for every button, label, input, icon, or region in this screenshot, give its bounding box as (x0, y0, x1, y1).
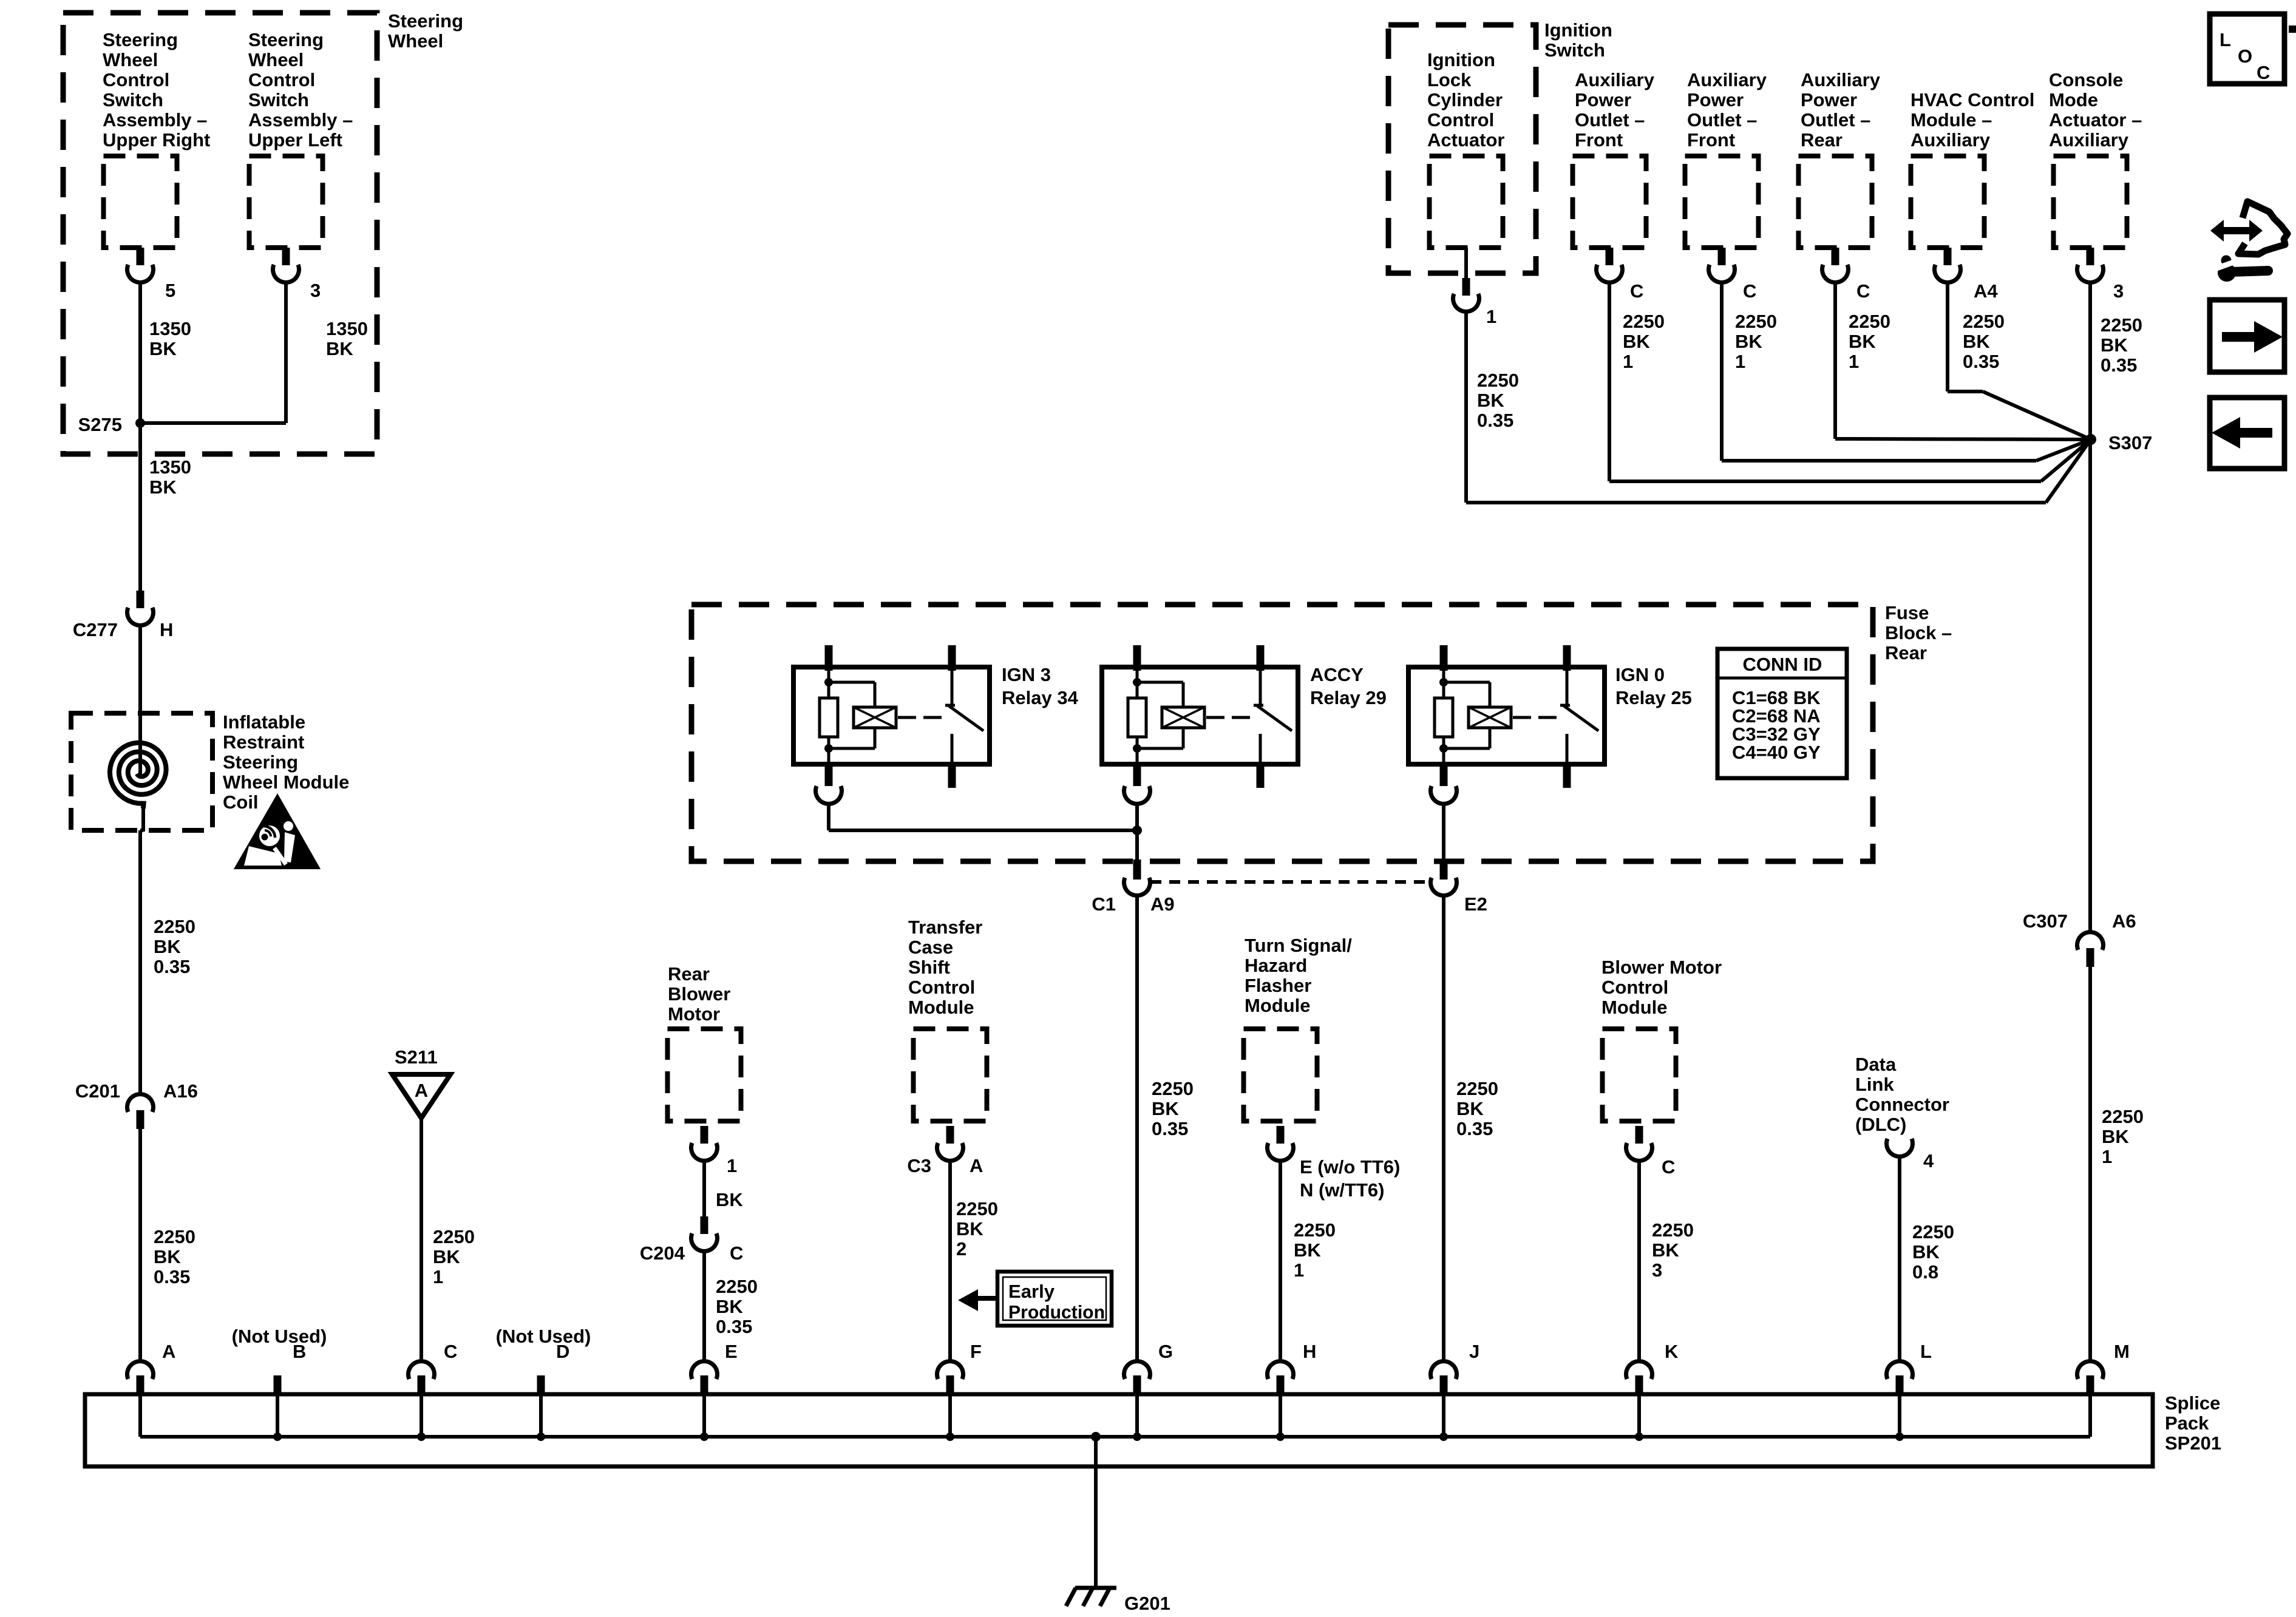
svg-text:Data: Data (1855, 1054, 1897, 1075)
svg-text:L: L (2220, 29, 2231, 50)
svg-text:BK: BK (1456, 1098, 1484, 1119)
svg-text:2250: 2250 (1912, 1221, 1954, 1242)
svg-text:A4: A4 (1974, 280, 1998, 302)
svg-text:(DLC): (DLC) (1855, 1114, 1906, 1135)
svg-text:S307: S307 (2108, 432, 2152, 453)
svg-text:Outlet –: Outlet – (1575, 109, 1645, 131)
svg-text:E (w/o TT6): E (w/o TT6) (1300, 1156, 1400, 1178)
svg-text:G201: G201 (1124, 1593, 1170, 1614)
svg-text:C307: C307 (2023, 910, 2068, 932)
svg-text:1: 1 (1849, 351, 1859, 372)
svg-text:Switch: Switch (248, 89, 309, 110)
svg-text:Mode: Mode (2049, 89, 2098, 110)
svg-text:Auxiliary: Auxiliary (2049, 129, 2129, 151)
svg-text:Assembly –: Assembly – (248, 109, 353, 131)
svg-text:Steering: Steering (248, 29, 324, 50)
svg-text:B: B (293, 1341, 306, 1362)
svg-text:Steering: Steering (223, 751, 298, 773)
svg-text:2250: 2250 (1652, 1219, 1694, 1241)
svg-text:2250: 2250 (1849, 311, 1890, 332)
svg-text:0.35: 0.35 (154, 956, 190, 977)
svg-text:5: 5 (165, 280, 175, 301)
svg-text:Assembly –: Assembly – (103, 109, 207, 131)
svg-text:ACCY: ACCY (1310, 664, 1364, 685)
svg-text:2250: 2250 (1623, 311, 1665, 332)
svg-text:Connector: Connector (1855, 1094, 1949, 1115)
svg-text:C: C (1856, 280, 1870, 302)
svg-text:Pack: Pack (2165, 1412, 2209, 1434)
svg-text:Outlet –: Outlet – (1687, 109, 1757, 131)
svg-text:1: 1 (727, 1155, 737, 1176)
svg-text:2250: 2250 (956, 1198, 998, 1219)
svg-text:A: A (415, 1080, 428, 1101)
svg-text:BK: BK (956, 1218, 983, 1239)
svg-text:Power: Power (1575, 89, 1631, 110)
svg-text:Steering: Steering (103, 29, 178, 50)
svg-text:Upper Right: Upper Right (103, 129, 210, 151)
svg-text:1350: 1350 (149, 456, 191, 478)
svg-text:Actuator: Actuator (1427, 129, 1504, 151)
svg-text:O: O (2238, 46, 2252, 67)
svg-text:Module –: Module – (1911, 109, 1992, 131)
svg-text:Motor: Motor (668, 1003, 720, 1025)
svg-text:C201: C201 (75, 1080, 120, 1102)
svg-text:Actuator –: Actuator – (2049, 109, 2142, 131)
svg-text:0.35: 0.35 (1963, 351, 1999, 372)
svg-text:Module: Module (1245, 995, 1311, 1016)
svg-text:2250: 2250 (433, 1226, 475, 1247)
svg-text:A: A (970, 1155, 983, 1176)
svg-text:Upper Left: Upper Left (248, 129, 342, 151)
svg-text:Control: Control (248, 69, 315, 90)
svg-text:2250: 2250 (2102, 1106, 2144, 1127)
svg-text:2250: 2250 (1963, 311, 2005, 332)
svg-text:Turn Signal/: Turn Signal/ (1245, 935, 1352, 956)
svg-text:Wheel Module: Wheel Module (223, 771, 349, 793)
svg-text:Switch: Switch (103, 89, 163, 110)
svg-text:A6: A6 (2112, 910, 2136, 932)
svg-text:0.35: 0.35 (1456, 1118, 1493, 1139)
svg-text:2250: 2250 (1152, 1078, 1194, 1099)
svg-text:2: 2 (956, 1238, 966, 1259)
svg-text:Module: Module (908, 997, 974, 1018)
svg-text:BK: BK (326, 338, 353, 359)
svg-text:L: L (1920, 1341, 1932, 1362)
svg-text:BK: BK (1623, 331, 1650, 352)
svg-text:2250: 2250 (1294, 1219, 1336, 1241)
svg-text:1: 1 (1486, 306, 1496, 327)
svg-text:2250: 2250 (1456, 1078, 1498, 1099)
svg-text:D: D (556, 1341, 569, 1362)
svg-text:BK: BK (1477, 390, 1504, 411)
svg-text:Ignition: Ignition (1427, 49, 1495, 70)
svg-text:Cylinder: Cylinder (1427, 89, 1503, 110)
svg-text:3: 3 (1652, 1259, 1662, 1281)
svg-text:1350: 1350 (149, 318, 191, 339)
svg-text:IGN 3: IGN 3 (1002, 664, 1051, 685)
svg-text:Wheel: Wheel (388, 30, 443, 52)
svg-text:Outlet –: Outlet – (1801, 109, 1870, 131)
svg-text:M: M (2114, 1341, 2130, 1362)
svg-text:C277: C277 (73, 619, 118, 640)
svg-text:C: C (730, 1242, 743, 1264)
svg-text:2250: 2250 (154, 1226, 195, 1247)
svg-text:Auxiliary: Auxiliary (1575, 69, 1655, 90)
svg-text:Power: Power (1801, 89, 1857, 110)
svg-text:1: 1 (1735, 351, 1745, 372)
svg-text:Early: Early (1008, 1281, 1055, 1302)
svg-text:C: C (2257, 62, 2270, 83)
svg-text:C3: C3 (907, 1155, 931, 1176)
svg-text:C: C (1630, 280, 1643, 302)
svg-text:CONN ID: CONN ID (1743, 654, 1822, 675)
svg-text:Control: Control (1601, 977, 1668, 998)
svg-text:BK: BK (2102, 1126, 2129, 1147)
svg-text:H: H (160, 619, 173, 640)
svg-text:Shift: Shift (908, 957, 950, 978)
svg-text:2250: 2250 (2101, 314, 2142, 336)
svg-text:Restraint: Restraint (223, 731, 304, 753)
svg-text:Console: Console (2049, 69, 2123, 90)
svg-text:BK: BK (154, 936, 181, 957)
svg-text:Relay 25: Relay 25 (1615, 687, 1692, 708)
svg-text:G: G (1158, 1341, 1173, 1362)
svg-text:BK: BK (1735, 331, 1762, 352)
svg-text:E2: E2 (1464, 893, 1487, 915)
svg-text:0.35: 0.35 (154, 1266, 190, 1287)
svg-text:Front: Front (1687, 129, 1735, 151)
svg-text:BK: BK (149, 338, 177, 359)
svg-text:Transfer: Transfer (908, 917, 982, 938)
svg-text:C: C (1743, 280, 1756, 302)
svg-text:F: F (970, 1341, 982, 1362)
svg-text:C: C (444, 1341, 457, 1362)
svg-text:BK: BK (149, 476, 177, 498)
svg-text:Hazard: Hazard (1245, 955, 1307, 976)
svg-text:Coil: Coil (223, 792, 259, 813)
svg-text:1: 1 (433, 1266, 443, 1287)
svg-text:Production: Production (1008, 1301, 1105, 1323)
svg-text:Module: Module (1601, 997, 1668, 1018)
svg-text:SP201: SP201 (2165, 1432, 2221, 1454)
svg-text:BK: BK (433, 1246, 460, 1267)
svg-text:K: K (1665, 1341, 1679, 1362)
svg-text:(Not Used): (Not Used) (232, 1326, 327, 1347)
svg-text:BK: BK (716, 1189, 743, 1210)
svg-text:J: J (1469, 1341, 1479, 1362)
svg-text:Ignition: Ignition (1544, 19, 1612, 41)
svg-text:Wheel: Wheel (248, 49, 304, 70)
svg-text:Splice: Splice (2165, 1392, 2220, 1414)
svg-text:HVAC Control: HVAC Control (1911, 89, 2034, 110)
svg-text:4: 4 (1923, 1150, 1934, 1171)
svg-text:BK: BK (1963, 331, 1990, 352)
svg-text:A16: A16 (163, 1080, 198, 1102)
svg-text:BK: BK (1294, 1239, 1321, 1261)
svg-text:Relay 34: Relay 34 (1002, 687, 1079, 708)
svg-text:BK: BK (1912, 1241, 1940, 1263)
svg-text:1: 1 (1623, 351, 1633, 372)
svg-text:Switch: Switch (1544, 39, 1605, 61)
svg-text:S211: S211 (395, 1046, 438, 1068)
svg-text:Power: Power (1687, 89, 1744, 110)
svg-text:0.35: 0.35 (716, 1316, 752, 1337)
svg-text:1350: 1350 (326, 318, 368, 339)
svg-text:BK: BK (2101, 334, 2128, 356)
svg-text:0.8: 0.8 (1912, 1261, 1938, 1283)
svg-text:IGN 0: IGN 0 (1615, 664, 1665, 685)
svg-text:3: 3 (2113, 280, 2124, 302)
svg-text:A: A (162, 1341, 175, 1362)
svg-text:Case: Case (908, 937, 953, 958)
svg-text:H: H (1303, 1341, 1316, 1362)
svg-text:BK: BK (1652, 1239, 1679, 1261)
svg-text:C204: C204 (640, 1242, 685, 1264)
svg-text:1: 1 (2102, 1146, 2112, 1167)
svg-text:(Not Used): (Not Used) (496, 1326, 591, 1347)
svg-text:Auxiliary: Auxiliary (1687, 69, 1767, 90)
svg-text:2250: 2250 (1477, 370, 1519, 391)
svg-text:Control: Control (1427, 109, 1494, 131)
svg-text:A9: A9 (1150, 893, 1175, 915)
svg-text:C4=40 GY: C4=40 GY (1732, 742, 1821, 763)
svg-text:C1: C1 (1092, 893, 1116, 915)
svg-text:BK: BK (1849, 331, 1876, 352)
svg-text:Rear: Rear (1885, 642, 1927, 663)
svg-text:BK: BK (1152, 1098, 1179, 1119)
svg-text:2250: 2250 (1735, 311, 1777, 332)
svg-text:2250: 2250 (716, 1276, 758, 1297)
svg-text:C: C (1662, 1156, 1675, 1178)
svg-text:Fuse: Fuse (1885, 602, 1929, 623)
svg-text:BK: BK (154, 1246, 181, 1267)
svg-text:N (w/TT6): N (w/TT6) (1300, 1179, 1385, 1201)
svg-text:S275: S275 (78, 414, 122, 435)
svg-text:3: 3 (310, 280, 321, 301)
svg-text:Front: Front (1575, 129, 1623, 151)
svg-text:0.35: 0.35 (1477, 410, 1513, 431)
svg-text:Flasher: Flasher (1245, 975, 1311, 996)
svg-text:1: 1 (1294, 1259, 1304, 1281)
svg-text:Link: Link (1855, 1074, 1894, 1095)
svg-text:Control: Control (103, 69, 169, 90)
svg-text:Control: Control (908, 977, 975, 998)
svg-text:Steering: Steering (388, 10, 463, 32)
svg-text:Relay 29: Relay 29 (1310, 687, 1387, 708)
svg-text:Auxiliary: Auxiliary (1801, 69, 1881, 90)
svg-text:Blower: Blower (668, 983, 730, 1005)
svg-text:2250: 2250 (154, 916, 195, 937)
svg-text:Rear: Rear (1801, 129, 1843, 151)
svg-text:Auxiliary: Auxiliary (1911, 129, 1991, 151)
svg-text:Inflatable: Inflatable (223, 711, 305, 733)
svg-text:Rear: Rear (668, 963, 710, 985)
svg-text:Lock: Lock (1427, 69, 1472, 90)
svg-text:Block –: Block – (1885, 622, 1952, 643)
svg-text:0.35: 0.35 (1152, 1118, 1188, 1139)
svg-text:Wheel: Wheel (103, 49, 158, 70)
svg-text:E: E (725, 1341, 738, 1362)
svg-text:0.35: 0.35 (2101, 354, 2137, 376)
svg-text:Blower Motor: Blower Motor (1601, 957, 1722, 978)
svg-text:BK: BK (716, 1296, 743, 1317)
